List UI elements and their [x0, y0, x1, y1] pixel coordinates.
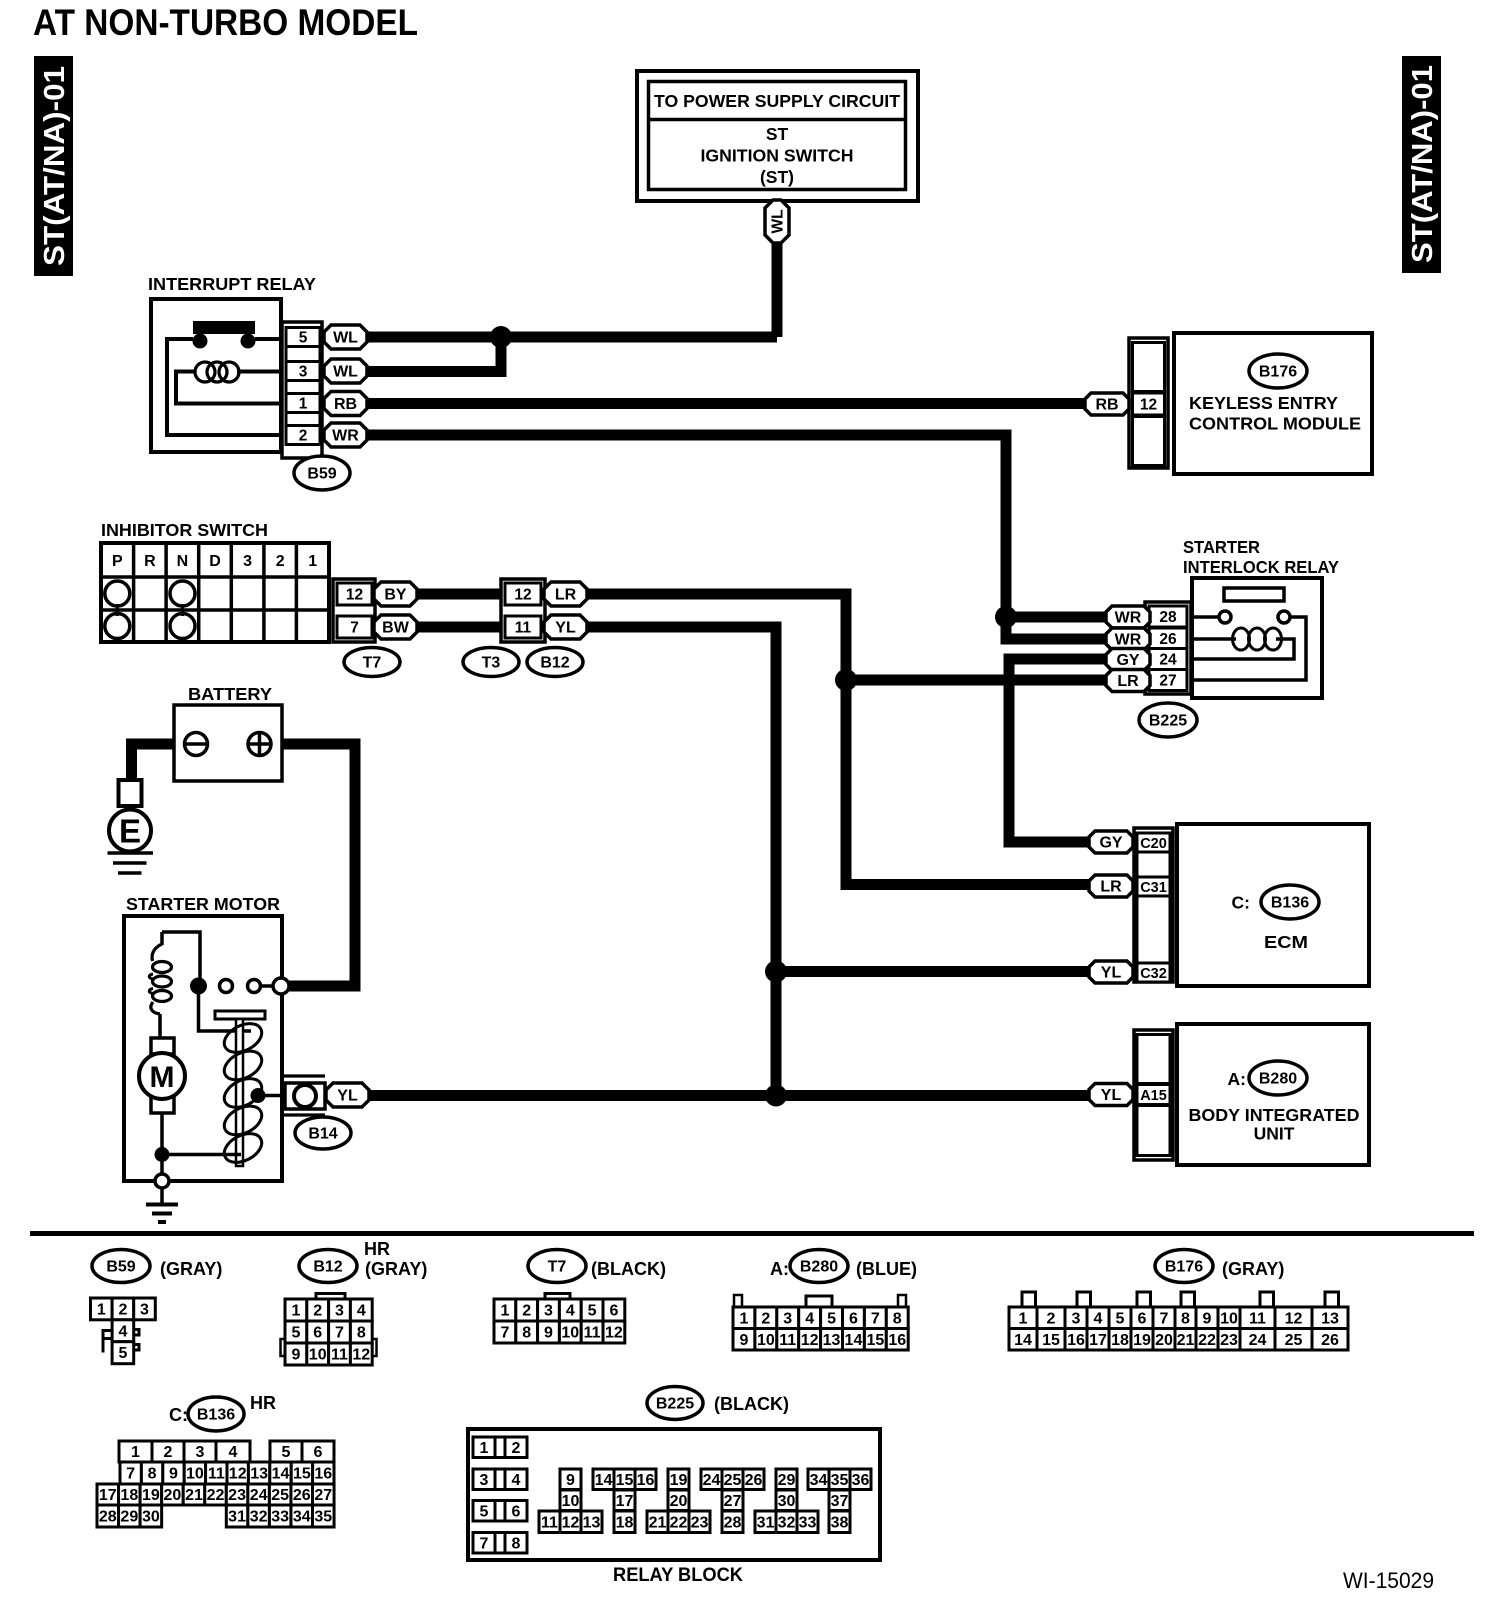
svg-text:B280: B280	[800, 1259, 838, 1276]
svg-text:13: 13	[1321, 1310, 1339, 1327]
svg-text:8: 8	[522, 1325, 531, 1342]
svg-text:23: 23	[1220, 1332, 1238, 1349]
wire WL from ignition switch (vertical)	[772, 242, 783, 337]
svg-text:R: R	[144, 553, 156, 570]
connector label B59 (pinout)	[92, 1250, 150, 1283]
inhibitor switch table	[101, 543, 329, 642]
svg-text:11: 11	[208, 1466, 225, 1483]
svg-text:15: 15	[866, 1332, 884, 1349]
svg-text:BY: BY	[384, 587, 407, 604]
svg-text:7: 7	[480, 1535, 489, 1552]
terminal WL pin 5	[324, 325, 367, 349]
wire WR to pin 28	[1006, 612, 1112, 623]
svg-text:26: 26	[745, 1472, 763, 1489]
terminal RB pin 1	[324, 392, 367, 416]
svg-text:GY: GY	[1116, 652, 1139, 669]
interrupt relay coil	[176, 362, 281, 404]
terminal LR (ECM C31)	[1089, 875, 1133, 897]
starter solenoid output junction	[251, 1088, 285, 1103]
svg-text:1: 1	[739, 1310, 748, 1327]
interlock relay coil	[1192, 628, 1294, 659]
svg-text:WR: WR	[1115, 610, 1142, 627]
svg-text:7: 7	[350, 620, 359, 637]
svg-text:T7: T7	[363, 655, 382, 672]
svg-text:5: 5	[480, 1503, 489, 1520]
right page tag ST(AT/NA)-01	[1402, 56, 1441, 273]
terminal YL pin 11	[544, 615, 587, 639]
svg-text:25: 25	[1285, 1332, 1303, 1349]
svg-text:33: 33	[271, 1509, 289, 1526]
svg-text:(ST): (ST)	[760, 167, 794, 187]
connector label B176 (pinout)	[1155, 1250, 1213, 1283]
svg-text:9: 9	[169, 1466, 178, 1483]
svg-text:YL: YL	[1101, 965, 1122, 982]
wire battery minus lead	[132, 744, 185, 780]
svg-text:8: 8	[148, 1466, 157, 1483]
svg-text:12: 12	[346, 587, 363, 604]
svg-text:YL: YL	[337, 1088, 358, 1105]
junction LR junction	[835, 669, 857, 691]
interlock relay switch contact	[1192, 588, 1306, 680]
svg-text:6: 6	[1138, 1310, 1147, 1327]
svg-text:6: 6	[849, 1310, 858, 1327]
svg-text:3: 3	[243, 553, 252, 570]
wire GY interlock pin24 to ECM C20	[1009, 659, 1112, 842]
svg-text:YL: YL	[1101, 1087, 1122, 1104]
svg-text:12: 12	[229, 1466, 247, 1483]
svg-text:6: 6	[609, 1303, 618, 1320]
svg-text:3: 3	[299, 364, 308, 381]
svg-text:9: 9	[1203, 1310, 1212, 1327]
svg-text:9: 9	[291, 1347, 300, 1364]
svg-text:INTERLOCK RELAY: INTERLOCK RELAY	[1183, 557, 1339, 577]
svg-text:24: 24	[703, 1472, 721, 1489]
svg-text:AT NON-TURBO MODEL: AT NON-TURBO MODEL	[33, 1, 418, 43]
svg-text:32: 32	[778, 1514, 796, 1531]
connector label B12 (pinout)	[299, 1250, 357, 1283]
svg-text:KEYLESS ENTRY: KEYLESS ENTRY	[1189, 393, 1338, 413]
ECM box	[1177, 824, 1369, 986]
inhibitor switch contacts N	[170, 581, 195, 639]
svg-text:1: 1	[1019, 1310, 1028, 1327]
svg-text:5: 5	[827, 1310, 836, 1327]
svg-text:7: 7	[126, 1466, 135, 1483]
svg-text:4: 4	[566, 1303, 575, 1320]
junction WL junction	[490, 326, 512, 348]
inhibitor connector column T7	[333, 579, 375, 642]
svg-text:25: 25	[724, 1472, 742, 1489]
svg-text:12: 12	[605, 1325, 623, 1342]
keyless entry control module box	[1174, 333, 1372, 474]
terminal BW pin 7	[374, 615, 417, 639]
svg-text:1: 1	[97, 1301, 106, 1318]
terminal LR pin 27	[1106, 670, 1150, 692]
svg-text:11: 11	[1249, 1310, 1266, 1327]
connector label B59	[294, 456, 350, 490]
svg-text:B12: B12	[540, 655, 569, 672]
svg-text:12: 12	[514, 587, 531, 604]
connector label B280 (pinout)	[790, 1250, 848, 1283]
svg-text:26: 26	[1321, 1332, 1339, 1349]
svg-text:2: 2	[1047, 1310, 1056, 1327]
svg-text:A:: A:	[1228, 1069, 1246, 1089]
connector label T3	[463, 648, 519, 677]
terminal WL (ignition switch lead) (vertical)	[765, 200, 789, 243]
svg-text:13: 13	[823, 1332, 841, 1349]
terminal RB pin 12 (keyless)	[1085, 393, 1129, 415]
svg-text:N: N	[177, 553, 189, 570]
svg-text:D: D	[209, 553, 221, 570]
svg-text:29: 29	[778, 1472, 796, 1489]
connector label B225 (pinout)	[647, 1387, 703, 1420]
B136 pin diagram	[97, 1441, 334, 1527]
svg-text:19: 19	[1133, 1332, 1151, 1349]
interrupt relay box	[151, 299, 281, 452]
svg-text:INTERRUPT RELAY: INTERRUPT RELAY	[148, 274, 316, 294]
svg-text:15: 15	[293, 1466, 311, 1483]
starter motor plunger	[215, 1011, 265, 1166]
svg-text:9: 9	[739, 1332, 748, 1349]
svg-text:1: 1	[291, 1303, 300, 1320]
svg-text:3: 3	[783, 1310, 792, 1327]
svg-text:11: 11	[331, 1347, 348, 1364]
svg-text:C32: C32	[1140, 966, 1167, 982]
terminal WL pin 3	[324, 359, 367, 383]
svg-text:10: 10	[1220, 1310, 1238, 1327]
svg-text:6: 6	[313, 1325, 322, 1342]
svg-text:21: 21	[1177, 1332, 1195, 1349]
svg-text:3: 3	[544, 1303, 553, 1320]
svg-text:4: 4	[805, 1310, 814, 1327]
svg-text:2: 2	[512, 1440, 521, 1457]
svg-text:34: 34	[810, 1472, 828, 1489]
svg-text:16: 16	[1067, 1332, 1085, 1349]
svg-text:14: 14	[845, 1332, 863, 1349]
svg-text:32: 32	[250, 1509, 268, 1526]
svg-text:B14: B14	[308, 1126, 337, 1143]
svg-text:12: 12	[1285, 1310, 1303, 1327]
svg-text:38: 38	[831, 1514, 849, 1531]
svg-text:17: 17	[1089, 1332, 1107, 1349]
svg-text:15: 15	[616, 1472, 634, 1489]
B176 pin diagram	[1009, 1292, 1348, 1350]
B12 pin diagram	[281, 1294, 377, 1366]
svg-text:RB: RB	[1095, 397, 1118, 414]
wire BY inhibitor to T3	[416, 589, 505, 600]
svg-text:12: 12	[562, 1514, 580, 1531]
svg-text:19: 19	[670, 1472, 688, 1489]
svg-text:(BLACK): (BLACK)	[714, 1394, 789, 1414]
svg-text:7: 7	[500, 1325, 509, 1342]
svg-text:27: 27	[724, 1493, 742, 1510]
svg-text:22: 22	[670, 1514, 688, 1531]
svg-text:10: 10	[186, 1466, 204, 1483]
svg-text:11: 11	[584, 1325, 601, 1342]
B59 pin diagram	[91, 1298, 156, 1364]
svg-text:B59: B59	[307, 466, 336, 483]
relay block pin diagram	[473, 1437, 871, 1553]
inhibitor switch contacts P	[105, 581, 130, 639]
svg-text:2: 2	[299, 428, 308, 445]
svg-text:31: 31	[228, 1509, 246, 1526]
wire WL pin3 branch	[367, 337, 501, 372]
svg-text:(BLACK): (BLACK)	[591, 1259, 666, 1279]
svg-text:STARTER MOTOR: STARTER MOTOR	[126, 894, 280, 914]
terminal BY pin 12	[374, 582, 417, 606]
interrupt relay connector column	[282, 322, 322, 458]
svg-text:12: 12	[352, 1347, 370, 1364]
relay block box	[468, 1429, 880, 1560]
svg-text:3: 3	[140, 1301, 149, 1318]
connector label B225	[1139, 703, 1197, 737]
svg-text:17: 17	[616, 1493, 634, 1510]
svg-text:B12: B12	[313, 1259, 342, 1276]
svg-text:BODY INTEGRATED: BODY INTEGRATED	[1189, 1105, 1360, 1125]
svg-text:HR: HR	[250, 1393, 276, 1413]
svg-text:30: 30	[142, 1509, 160, 1526]
svg-text:YL: YL	[555, 620, 576, 637]
svg-text:A15: A15	[1140, 1088, 1167, 1104]
svg-text:2: 2	[276, 553, 285, 570]
svg-text:10: 10	[562, 1493, 580, 1510]
connector label T7 (pinout)	[528, 1250, 586, 1283]
interrupt relay switch contact	[167, 321, 281, 435]
svg-text:1: 1	[299, 396, 308, 413]
svg-text:3: 3	[335, 1303, 344, 1320]
svg-text:27: 27	[314, 1487, 332, 1504]
fusible link box	[119, 780, 142, 806]
svg-text:(BLUE): (BLUE)	[856, 1259, 917, 1279]
starter motor case ground	[146, 1174, 178, 1222]
body integrated unit box	[1177, 1024, 1369, 1165]
wire BW inhibitor to T3	[416, 622, 505, 633]
svg-text:20: 20	[1155, 1332, 1173, 1349]
svg-text:HR: HR	[364, 1239, 390, 1259]
svg-text:14: 14	[1014, 1332, 1032, 1349]
body integrated unit connector column	[1134, 1030, 1173, 1160]
svg-text:B225: B225	[1149, 713, 1187, 730]
svg-text:11: 11	[541, 1514, 558, 1531]
svg-text:18: 18	[616, 1514, 634, 1531]
wire WR to pin 26	[1006, 617, 1112, 639]
svg-text:8: 8	[512, 1535, 521, 1552]
svg-text:15: 15	[1042, 1332, 1060, 1349]
svg-text:RELAY BLOCK: RELAY BLOCK	[613, 1564, 743, 1586]
svg-text:2: 2	[522, 1303, 531, 1320]
svg-text:29: 29	[120, 1509, 138, 1526]
wire WL pin5 horizontal	[367, 332, 777, 343]
svg-text:20: 20	[670, 1493, 688, 1510]
terminal WR pin 2	[324, 423, 367, 447]
svg-text:CONTROL MODULE: CONTROL MODULE	[1189, 414, 1361, 434]
B280 pin diagram	[733, 1295, 908, 1350]
terminal GY (ECM C20)	[1089, 831, 1133, 853]
svg-text:C31: C31	[1140, 880, 1167, 896]
svg-text:GY: GY	[1099, 835, 1122, 852]
svg-text:13: 13	[583, 1514, 601, 1531]
connector label B12	[527, 648, 583, 677]
terminal LR pin 12	[544, 582, 587, 606]
svg-text:30: 30	[778, 1493, 796, 1510]
svg-text:35: 35	[314, 1509, 332, 1526]
svg-text:28: 28	[1159, 609, 1177, 626]
svg-text:35: 35	[831, 1472, 849, 1489]
svg-text:C:: C:	[169, 1405, 188, 1425]
svg-text:WL: WL	[770, 209, 787, 233]
svg-text:3: 3	[1072, 1310, 1081, 1327]
svg-text:(GRAY): (GRAY)	[365, 1259, 427, 1279]
svg-text:E: E	[119, 813, 141, 850]
svg-text:WL: WL	[333, 330, 358, 347]
svg-text:24: 24	[1249, 1332, 1267, 1349]
svg-text:12: 12	[1140, 397, 1157, 414]
svg-text:18: 18	[1111, 1332, 1129, 1349]
svg-text:INHIBITOR SWITCH: INHIBITOR SWITCH	[101, 520, 268, 540]
svg-text:23: 23	[691, 1514, 709, 1531]
svg-text:ST(AT/NA)-01: ST(AT/NA)-01	[39, 66, 71, 266]
svg-text:C20: C20	[1140, 836, 1167, 852]
svg-text:10: 10	[309, 1347, 327, 1364]
separator line	[30, 1231, 1474, 1236]
svg-text:28: 28	[99, 1509, 117, 1526]
svg-text:22: 22	[1198, 1332, 1216, 1349]
svg-text:21: 21	[185, 1487, 203, 1504]
interlock relay connector column	[1145, 602, 1191, 694]
svg-text:6: 6	[512, 1503, 521, 1520]
keyless entry connector column	[1129, 338, 1168, 468]
connector label B136 (ECM)	[1261, 885, 1319, 919]
svg-text:2: 2	[313, 1303, 322, 1320]
terminal YL (ECM C32)	[1089, 961, 1133, 983]
svg-text:2: 2	[118, 1301, 127, 1318]
svg-text:23: 23	[228, 1487, 246, 1504]
svg-text:4: 4	[512, 1472, 521, 1489]
svg-text:21: 21	[649, 1514, 667, 1531]
starter motor M	[139, 1038, 185, 1148]
junction YL junction upper	[765, 961, 787, 983]
wire battery plus lead to starter	[271, 744, 355, 986]
svg-text:3: 3	[480, 1472, 489, 1489]
svg-text:26: 26	[293, 1487, 311, 1504]
starter motor box	[124, 916, 282, 1181]
svg-text:8: 8	[1181, 1310, 1190, 1327]
svg-text:2: 2	[761, 1310, 770, 1327]
svg-text:7: 7	[335, 1325, 344, 1342]
svg-text:20: 20	[164, 1487, 182, 1504]
svg-text:(GRAY): (GRAY)	[160, 1259, 222, 1279]
svg-text:26: 26	[1159, 631, 1177, 648]
svg-text:10: 10	[757, 1332, 775, 1349]
svg-text:14: 14	[272, 1466, 290, 1483]
svg-text:B176: B176	[1259, 364, 1297, 381]
svg-text:IGNITION SWITCH: IGNITION SWITCH	[701, 146, 854, 166]
svg-text:16: 16	[314, 1466, 332, 1483]
starter motor spring	[220, 1018, 267, 1168]
connector label T7	[344, 648, 400, 677]
svg-text:B280: B280	[1259, 1071, 1297, 1088]
connector label B176	[1249, 354, 1307, 388]
starter solenoid winding lead	[199, 986, 252, 1031]
wire YL branch to ECM C32	[776, 966, 1094, 977]
svg-text:11: 11	[515, 620, 532, 637]
svg-text:36: 36	[852, 1472, 870, 1489]
svg-text:BW: BW	[382, 620, 410, 637]
svg-text:B136: B136	[197, 1407, 235, 1424]
svg-text:3: 3	[196, 1444, 205, 1461]
svg-text:33: 33	[799, 1514, 817, 1531]
left page tag ST(AT/NA)-01	[34, 56, 73, 276]
svg-text:5: 5	[588, 1303, 597, 1320]
terminal YL (starter B14)	[326, 1083, 369, 1107]
connector column T3/B12	[501, 579, 545, 642]
svg-text:ST(AT/NA)-01: ST(AT/NA)-01	[1407, 65, 1439, 263]
svg-text:B59: B59	[106, 1259, 135, 1276]
svg-text:22: 22	[207, 1487, 225, 1504]
svg-text:25: 25	[271, 1487, 289, 1504]
ignition switch block	[637, 71, 918, 201]
wire YL starter motor to body integrated unit	[366, 1090, 1094, 1101]
starter motor field coil	[149, 932, 200, 1038]
starter ring terminal B14	[282, 1076, 325, 1115]
svg-text:8: 8	[357, 1325, 366, 1342]
svg-text:WR: WR	[332, 428, 359, 445]
wire LR to ECM C31	[586, 594, 1094, 885]
wire LR branch to interlock pin 27	[846, 675, 1112, 686]
svg-text:8: 8	[893, 1310, 902, 1327]
svg-text:6: 6	[314, 1444, 323, 1461]
battery box	[174, 705, 282, 781]
ground E	[108, 810, 154, 874]
svg-text:1: 1	[308, 553, 317, 570]
terminal WR pin 26	[1106, 628, 1150, 650]
svg-text:37: 37	[831, 1493, 849, 1510]
svg-text:1: 1	[500, 1303, 509, 1320]
terminal YL (BIU A15)	[1089, 1084, 1133, 1106]
svg-text:P: P	[112, 553, 123, 570]
svg-text:7: 7	[1160, 1310, 1169, 1327]
svg-text:UNIT: UNIT	[1254, 1124, 1295, 1144]
battery plus terminal	[248, 733, 271, 756]
T7 pin diagram	[494, 1294, 625, 1344]
svg-text:2: 2	[164, 1444, 173, 1461]
junction YL junction lower	[765, 1085, 787, 1107]
svg-text:34: 34	[293, 1509, 311, 1526]
svg-text:WI-15029: WI-15029	[1343, 1568, 1434, 1593]
svg-text:4: 4	[118, 1323, 127, 1340]
svg-text:C:: C:	[1232, 893, 1250, 913]
svg-text:LR: LR	[1117, 673, 1139, 690]
svg-text:T7: T7	[548, 1259, 567, 1276]
svg-text:14: 14	[595, 1472, 613, 1489]
svg-text:LR: LR	[1100, 879, 1122, 896]
starter interlock relay box	[1192, 578, 1322, 698]
svg-text:31: 31	[757, 1514, 775, 1531]
svg-text:5: 5	[282, 1444, 291, 1461]
svg-text:BATTERY: BATTERY	[188, 684, 272, 704]
svg-text:4: 4	[229, 1444, 238, 1461]
wire WR pin2 to interlock relay	[367, 435, 1006, 617]
ECM connector column	[1134, 828, 1173, 982]
svg-text:ECM: ECM	[1264, 932, 1308, 952]
svg-text:5: 5	[291, 1325, 300, 1342]
svg-text:(GRAY): (GRAY)	[1222, 1259, 1284, 1279]
svg-text:B136: B136	[1271, 895, 1309, 912]
starter motor internal junction	[155, 1147, 242, 1174]
svg-text:9: 9	[566, 1472, 575, 1489]
svg-text:RB: RB	[334, 396, 357, 413]
svg-text:A:: A:	[770, 1259, 789, 1279]
svg-text:5: 5	[299, 330, 308, 347]
